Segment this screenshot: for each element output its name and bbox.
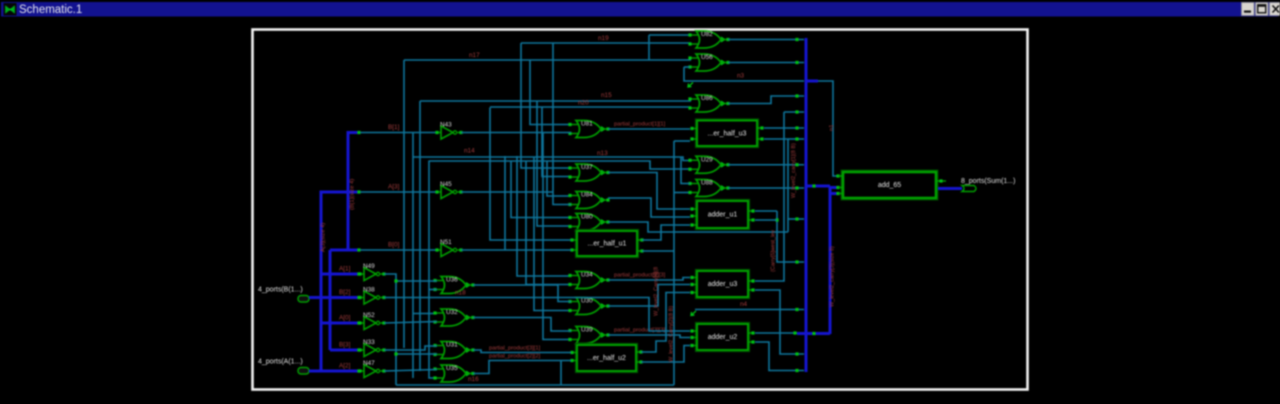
junction bus pin n4 [795,308,798,311]
svg-text:W_level2_Carry[2](8 B): W_level2_Carry[2](8 B) [669,306,675,362]
svg-text:U35: U35 [446,365,458,372]
wire er_half_u2 out2 [641,346,690,363]
wire vertical x543 to U39 [543,133,571,340]
svg-text:n1: n1 [829,125,835,131]
svg-text:N49: N49 [363,263,375,270]
svg-text:U34: U34 [581,272,593,279]
svg-text:n13: n13 [597,150,608,157]
svg-text:A[1]: A[1] [339,266,351,273]
junction bus pin y112 [795,110,798,113]
block adder_u3 [690,271,754,297]
svg-text:W_level2_Carry[4](8: W_level2_Carry[4](8 [654,267,660,316]
svg-text:n19: n19 [598,35,609,42]
junction bus pin A3 [357,190,360,193]
wire bus B top branch B[0] [330,249,358,252]
wire net partial_product[3][3] [608,335,690,338]
svg-text:adder_u3: adder_u3 [708,281,738,288]
inverter N38 [358,287,385,305]
svg-text:n18: n18 [455,290,466,297]
wire net n1 [818,81,837,176]
svg-text:B[2]: B[2] [339,289,351,296]
wire net n18 N38 out [384,298,690,332]
wire vertical x526 to U34b [526,161,571,285]
inverter N49 [358,263,385,281]
wire carry bus vertical [829,186,832,334]
svg-text:U31: U31 [446,342,458,349]
wire N51 out to er_half_u1 [461,249,571,251]
svg-text:n17: n17 [469,52,480,59]
wire U31 in2 feed [396,353,437,355]
svg-text:N43: N43 [440,122,452,129]
svg-text:U88: U88 [701,180,713,187]
wire U56 in2 feed [684,66,690,68]
svg-text:U82: U82 [701,31,713,38]
junction bus pin A2 [357,369,360,372]
junction bus pin A0 [357,321,360,324]
net ripper n4 ripper [691,311,696,316]
wire vertical x547 to U84 [547,161,571,197]
svg-text:A[2]: A[2] [339,363,351,370]
wire net n13 [429,161,690,169]
wire N45 out to U84 [461,191,553,193]
svg-text:U29: U29 [701,156,713,163]
wire port A to bus [309,370,321,373]
svg-text:U80: U80 [581,214,593,221]
svg-text:W_level2_carry[1](8 B): W_level2_carry[1](8 B) [791,143,797,198]
wire N47 out [384,370,437,372]
wire x674 top to er_half_u3 [674,140,690,142]
minimize button [1242,3,1255,16]
wire carry bus bottom link [797,332,830,335]
svg-text:N38: N38 [363,287,375,294]
wire net n14 [413,157,690,161]
wire n16 riser x561 [560,361,562,385]
svg-text:(Carry[5]west_lev: (Carry[5]west_lev [771,230,777,272]
inverter N45 [435,181,462,199]
svg-text:...er_half_u2: ...er_half_u2 [587,355,626,362]
svg-text:U81: U81 [581,121,593,128]
svg-text:adder_u2: adder_u2 [708,334,738,341]
svg-text:U39: U39 [581,327,593,334]
svg-text:...er_half_u1: ...er_half_u1 [588,241,627,248]
junction carry link pin2 [812,184,815,187]
junction bus pin U86 [795,94,798,97]
junction bus pin U56 [795,61,798,64]
svg-text:A[3](size 4): A[3](size 4) [321,223,327,252]
wire U32 in1 feed x413 [413,313,437,315]
gate U81 [568,121,609,138]
wire vertical x420 [419,101,421,371]
svg-text:partial_product[1][1]: partial_product[1][1] [614,122,666,128]
wire adder_u1 out2 [755,219,777,221]
wire er_half_u1 out1 to adder_u1 [642,225,690,240]
wire N52 out [384,322,437,324]
gate U84 [568,192,609,209]
svg-text:adder_u1: adder_u1 [708,212,738,219]
block er_half_u2 [570,345,642,371]
gate U37 [568,164,609,181]
wire net n4 [695,309,804,311]
wire port B to bus [309,296,330,299]
svg-text:N33: N33 [363,339,375,346]
wire net n19 horizontal [521,42,691,44]
wire W_level2_Carry riser x674 [673,141,675,385]
wire U32 out [473,318,571,332]
wire Sum output blue [938,187,962,190]
title bar icon [4,3,17,16]
svg-text:U32: U32 [446,309,458,316]
junction carry link pin [812,332,815,335]
gate U39 [568,327,609,344]
gate U30 [568,298,609,315]
wire bus B branch B[2] [330,296,358,299]
wire U88 in2 feed x674 [674,192,690,194]
wire net n17 left vertical [403,60,405,348]
svg-text:U84: U84 [581,192,593,199]
junction bus pin adder_u2b [795,369,798,372]
wire vertical x530 to U81 [530,60,571,125]
wire vertical x517 to U34 [517,156,571,276]
net ripper n3 ripper [688,83,693,88]
wire U88 in1 feed x681 [681,157,690,184]
inverter N51 [435,239,462,257]
wire add_65 in3 stub [830,192,838,195]
svg-text:n20: n20 [578,100,589,107]
wire U56 out to bus [728,62,804,64]
wire bus B vertical [329,250,332,350]
svg-text:A[0]: A[0] [339,315,351,322]
inverter N43 [435,122,462,140]
schematic canvas frame [253,30,1028,390]
wire U88 out to bus [728,187,804,189]
svg-text:W_level2_carry[3](size 8): W_level2_carry[3](size 8) [830,246,836,307]
wire U80 out [608,222,788,232]
wire net B[0] into N51 [360,249,437,251]
junction bus pin U29 [795,163,798,166]
svg-text:N51: N51 [440,239,452,246]
gate U86 [688,95,729,112]
junction bus pin y262 [795,260,798,263]
junction bus pin adder_u2a [793,331,796,334]
wire net partial_product[2][3] [608,278,690,281]
wire bus B riser to B[1] [348,133,358,251]
svg-text:U56: U56 [701,54,713,61]
wire bus link to carry bus [806,185,830,188]
port 4_ports A [258,359,309,375]
wire U37 out [608,173,690,210]
junction x777 tee [775,218,778,221]
wire adder_u1 riser x777 [777,211,804,262]
junction bus pin eru3 [795,126,798,129]
svg-text:B[0]: B[0] [388,242,400,249]
wire riser x788 [787,139,789,232]
wire N33 out [384,346,437,350]
wire er_half_u3 out2 [764,138,788,140]
svg-text:U86: U86 [701,95,713,102]
gate U80 [568,214,609,231]
svg-text:B[1]: B[1] [388,124,400,131]
add_65 input pins [836,174,843,195]
svg-text:Schematic.1: Schematic.1 [19,4,82,16]
svg-text:n14: n14 [464,148,475,155]
junction bus pin B1 [357,131,360,134]
wire bus B bottom branch B[3] [330,349,358,352]
svg-text:N45: N45 [440,181,452,188]
wire U82 out to bus [728,39,804,41]
svg-text:4_ports(B(1...): 4_ports(B(1...) [258,287,303,294]
svg-text:partial_product[3][1]: partial_product[3][1] [489,346,541,352]
wire net B[1] into N43 [360,132,437,134]
wire vertical x553 [553,43,571,205]
wire net partial_product[3][1] [473,350,571,353]
wire bus A branch A[1] [321,273,358,276]
wire net n15 [420,100,691,102]
svg-text:8_ports(Sum(1...): 8_ports(Sum(1...) [961,178,1015,185]
svg-text:n15: n15 [601,92,612,99]
wire add_65 in2 stub [830,186,838,189]
wire net n20 [490,106,691,108]
title bar [1,2,1278,17]
wire er_half_u1 out2 riser x674 [642,250,674,252]
wire U84 out [608,198,690,217]
wire net partial_product[2][2] [473,361,571,374]
wire U29 out to bus [728,164,804,166]
svg-text:N52: N52 [363,312,375,319]
junction bus pin A1 [357,272,360,275]
wire adder_u2 out2 to bus [755,342,804,371]
svg-text:N47: N47 [363,360,375,367]
svg-text:partial_product[2][2]: partial_product[2][2] [489,354,541,360]
wire U30 out [608,285,690,307]
block er_half_u3 [690,121,763,147]
svg-text:n4: n4 [740,301,748,308]
gate U34 [568,272,609,289]
wire net n3 [684,67,804,81]
svg-text:U37: U37 [581,164,593,171]
gate U56 [688,54,729,71]
junction bus pin B2 [357,296,360,299]
add_65 output pin [936,179,946,182]
junction bus pin y354 [795,352,798,355]
close button [1270,3,1280,16]
wire bus A top branch A[3] [321,191,358,194]
wire bus A vertical [320,191,323,372]
wire vertical x490 to er_half_u1 [490,108,571,241]
gate U35 [433,365,474,382]
wire x788 to bus y219 [788,218,804,220]
wire U86 out to bus [728,96,804,104]
junction N49 tee [394,279,397,282]
wire U80 feed vertical x537 [537,101,571,226]
gate U31 [433,342,474,359]
inverter N33 [358,339,385,357]
wire adder_u3 out2 to bus [755,290,804,354]
wire link x649 [648,35,650,60]
junction bus pin U82 [795,38,798,41]
svg-text:add_65: add_65 [878,182,901,189]
wire bus A branch A[0] [321,322,358,325]
gate U36 [433,277,474,294]
maximize button [1256,3,1269,16]
svg-text:B[3]: B[3] [339,342,351,349]
gate U32 [433,309,474,326]
junction bus pin y139 [795,137,798,140]
wire vertical x511 to U80 [511,161,571,218]
gate U29 [688,156,729,173]
block adder_u2 [690,324,754,350]
wire net n19 [521,43,571,168]
wire U82 in1 feed [649,34,691,36]
wire x784 to bus y112 [784,111,804,113]
junction x396 tee [394,352,397,355]
junction bus pin y219 [795,217,798,220]
svg-text:U30: U30 [581,298,593,305]
inverter N47 [358,360,385,378]
wire vertical x534 to U30 [534,157,571,311]
wire N43 out to U81 [461,132,571,134]
port 4_ports B [258,287,309,303]
wire adder_u2 out1 to bus [755,332,797,334]
wire vertical x542 to U37 [542,107,571,177]
junction bus pin B3 [357,348,360,351]
wire x788 to bus y139 [788,138,804,140]
svg-text:(B[1](size 4): (B[1](size 4) [350,179,356,210]
wire net n1 blue stub [806,80,818,83]
wire main bus W_level [805,38,808,372]
wire er_half_u3 out1 to bus [764,127,804,129]
wire net n17 horizontal [404,59,691,61]
wire net A[3] into N45 [360,191,437,193]
svg-text:U36: U36 [446,277,458,284]
svg-text:A[3]: A[3] [388,184,400,191]
wire adder_u3 out1 riser x784 [755,112,784,281]
wire er_half_u2 out1 [641,293,690,353]
svg-text:4_ports(A(1...): 4_ports(A(1...) [258,359,303,366]
svg-text:n16: n16 [468,376,479,383]
wire vertical x413 [412,133,414,378]
wire bus A bottom branch A[2] [321,370,358,373]
svg-text:n3: n3 [737,73,745,80]
wire U36 in2 feed [429,289,437,291]
port 8_ports Sum [961,178,1015,192]
block er_half_u1 [570,231,643,256]
junction bus pin U88 [795,186,798,189]
inverter N52 [358,312,385,330]
wire U36 in1 feed [396,280,437,282]
wire vertical x429 [429,161,437,379]
wire vertical x505 [504,156,506,250]
wire bottom net n16 [396,384,674,386]
block adder_u1 [690,201,754,228]
wire net partial_product[1][1] [608,128,690,130]
junction bus pin B0 [357,248,360,251]
block add_65 [843,172,936,198]
gate U82 [688,31,729,48]
wire U36 out [473,285,571,302]
svg-text:...er_half_u3: ...er_half_u3 [708,130,747,137]
gate U88 [688,180,729,197]
wire adder_u1 out1 [755,210,777,212]
wire N49 out [384,274,396,385]
